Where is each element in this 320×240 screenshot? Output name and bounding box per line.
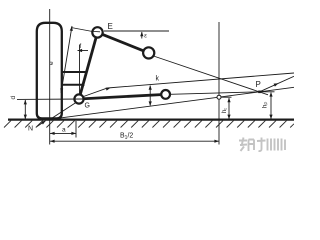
svg-text:N: N	[28, 126, 33, 133]
G-N line	[50, 102, 77, 120]
hP dimension	[270, 93, 272, 119]
roll-center node W	[217, 95, 221, 99]
N pointer arrow	[37, 121, 46, 127]
hP tick	[261, 91, 275, 93]
svg-text:a: a	[62, 127, 66, 134]
tire	[37, 23, 62, 119]
lower arm inner pivot circle	[161, 90, 170, 99]
node E circle	[92, 27, 102, 37]
d dimension	[24, 100, 26, 119]
svg-text:k: k	[156, 76, 160, 83]
bracket bottom line	[62, 84, 85, 86]
svg-text:G: G	[85, 103, 90, 110]
P ray with arrow	[260, 76, 295, 92]
svg-text:ε: ε	[144, 34, 147, 40]
a dimension extension line under G	[75, 121, 77, 138]
ground hatching	[4, 121, 294, 128]
vehicle centerline	[218, 22, 220, 145]
node F circle	[143, 47, 154, 58]
ht tick	[222, 96, 232, 98]
wheel centerline	[49, 9, 51, 145]
strut axis E-G (thick)	[79, 32, 98, 99]
arm extension to P	[166, 92, 260, 95]
svg-text:e: e	[48, 61, 55, 65]
watermark zhihu	[239, 138, 285, 152]
d reference line through G	[17, 98, 84, 100]
kingpin vertical line	[79, 45, 81, 95]
svg-text:hP: hP	[263, 102, 269, 108]
k dimension	[149, 86, 151, 106]
svg-text:E: E	[108, 22, 113, 31]
tick in E	[93, 30, 101, 32]
B1/2 dimension	[50, 140, 219, 142]
node G circle	[74, 94, 83, 103]
horizontal reference line from E	[104, 30, 169, 32]
a dimension	[50, 132, 76, 134]
epsilon angle dimension	[141, 32, 143, 39]
svg-text:d: d	[10, 96, 17, 100]
G force ray with arrow	[84, 73, 295, 97]
F-P line	[154, 56, 269, 95]
svg-text:P: P	[256, 80, 261, 89]
f dimension	[78, 50, 89, 52]
svg-text:ht: ht	[222, 108, 228, 113]
N-P line extended	[50, 87, 294, 119]
ground line	[8, 118, 294, 120]
upper link E-F (thick)	[98, 32, 149, 53]
e dimension line	[61, 26, 72, 93]
ht dimension	[228, 98, 230, 119]
bracket top line	[62, 71, 87, 73]
P point	[258, 91, 261, 94]
lower arm G-pivot (thick)	[79, 94, 166, 99]
